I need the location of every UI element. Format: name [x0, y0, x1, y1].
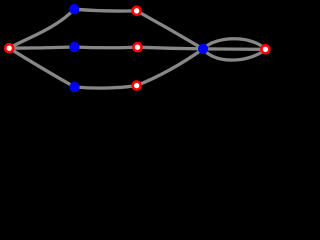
- wire R2-B4: [138, 47, 204, 49]
- node B2 blue: [69, 42, 79, 52]
- wire B4-R4 upper arc: [203, 39, 265, 50]
- node B4 blue: [198, 44, 208, 54]
- wire B2-R2: [74, 45, 137, 49]
- wire L-B2: [9, 47, 74, 48]
- node L red ring: [5, 44, 13, 52]
- node R2 red ring: [134, 43, 142, 51]
- node B1 blue: [69, 4, 79, 14]
- wire R3-B4: [137, 49, 203, 86]
- wire B4-R4 lower arc: [203, 49, 265, 60]
- wire L-B3: [9, 48, 74, 87]
- wire B4-R4 straight: [203, 47, 265, 51]
- node R4 red ring: [261, 45, 269, 53]
- wire B3-R3: [75, 86, 137, 89]
- wire R1-B4: [137, 11, 204, 49]
- wire L-B1: [9, 9, 74, 48]
- node R1 red ring: [133, 7, 141, 15]
- node R3 red ring: [133, 82, 141, 90]
- wire B1-R1: [74, 9, 136, 11]
- node B3 blue: [69, 82, 79, 92]
